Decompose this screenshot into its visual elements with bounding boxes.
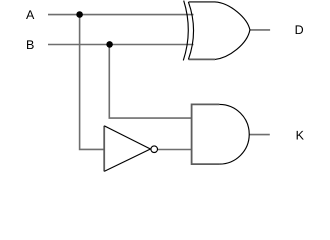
svg-text:K: K [296, 129, 305, 143]
svg-text:A: A [26, 8, 35, 22]
svg-text:B: B [26, 38, 34, 52]
svg-text:D: D [295, 23, 304, 37]
